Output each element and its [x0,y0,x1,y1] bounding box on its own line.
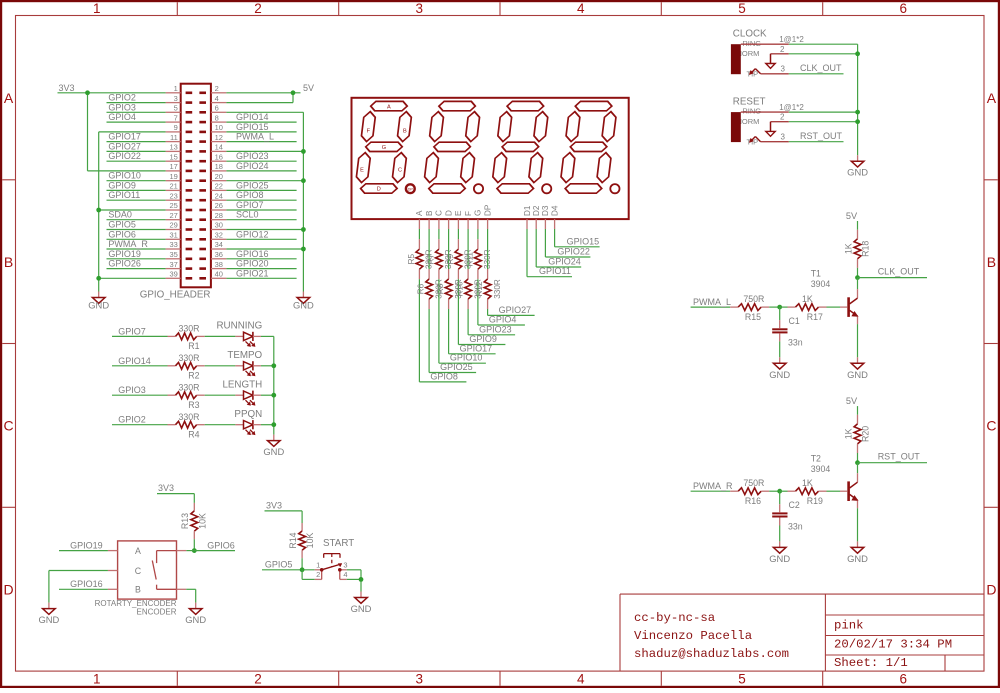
svg-text:18: 18 [215,162,223,171]
svg-text:10: 10 [215,123,223,132]
svg-text:3: 3 [174,94,178,103]
ground GND left [88,292,109,311]
display pins [419,219,554,229]
svg-text:35: 35 [169,250,177,259]
svg-text:GND: GND [847,553,868,564]
resistor R10 330R [456,279,483,299]
node GPIO16 [226,249,296,259]
svg-text:GND: GND [847,369,868,380]
svg-text:C: C [4,418,14,434]
svg-text:R19: R19 [807,496,823,506]
junction clock pin2 [855,51,860,56]
wire cap to GND [779,526,781,542]
svg-text:C: C [135,566,142,576]
svg-text:G: G [382,145,386,151]
svg-text:2: 2 [780,45,785,54]
svg-text:7: 7 [174,113,178,122]
svg-text:34: 34 [215,240,223,249]
node PWMA_R [107,239,166,249]
svg-text:D4: D4 [550,205,559,216]
svg-text:GPIO11: GPIO11 [108,190,140,200]
svg-text:GPIO11: GPIO11 [539,266,571,276]
resistor R20 1K [843,415,870,453]
node GPIO3 [107,102,166,112]
node PWMA_L [691,297,731,307]
svg-text:PPQN: PPQN [234,409,262,420]
svg-text:3: 3 [416,1,424,16]
svg-text:GPIO22: GPIO22 [557,247,590,257]
svg-text:22: 22 [215,182,223,191]
svg-text:1: 1 [93,671,101,686]
junction reset pin1 [855,110,860,115]
svg-text:GPIO15: GPIO15 [567,236,600,246]
svg-text:START: START [323,538,354,549]
svg-text:1: 1 [316,560,320,569]
wire digit D1 [527,229,572,277]
svg-text:GPIO23: GPIO23 [479,324,512,334]
svg-text:16: 16 [215,152,223,161]
svg-text:3V3: 3V3 [158,483,174,493]
resistor R4 330R [168,412,205,440]
svg-text:GPIO27: GPIO27 [108,141,141,151]
junction GND pin30 [301,227,306,232]
wire [205,335,236,337]
svg-text:GPIO14: GPIO14 [118,356,151,366]
svg-text:PWMA_R: PWMA_R [108,239,148,249]
svg-text:19: 19 [169,172,177,181]
LED LENGTH [222,379,262,405]
wire 3V3 to R14 [265,511,303,523]
node GPIO10 [107,171,166,181]
svg-text:B: B [425,210,434,216]
node GPIO2 [107,93,166,103]
node GPIO23 [226,151,296,161]
wire 3V3 to R13 [157,494,194,503]
node GPIO5 [262,559,315,570]
svg-text:17: 17 [169,162,177,171]
svg-text:GND: GND [769,553,790,564]
svg-text:C: C [435,210,444,216]
svg-text:24: 24 [215,191,223,200]
svg-text:RESET: RESET [733,96,766,107]
svg-text:GPIO27: GPIO27 [499,305,532,315]
svg-text:GPIO17: GPIO17 [108,132,141,142]
resistor R6 330R [417,279,444,299]
svg-text:cc-by-nc-sa: cc-by-nc-sa [634,611,715,625]
node GPIO26 [107,259,166,269]
svg-text:D2: D2 [532,205,541,216]
wire 5V to R20 [857,406,859,415]
junction base RC [777,305,782,310]
svg-text:D3: D3 [541,205,550,216]
svg-text:750R: 750R [743,478,764,488]
svg-text:R13: R13 [180,513,190,529]
svg-text:Vincenzo Pacella: Vincenzo Pacella [634,629,752,643]
resistor R9 330R [446,249,473,269]
ground switch [351,592,372,615]
resistor R13 10K [180,503,207,539]
svg-text:6: 6 [900,1,908,16]
ground emitter T2 [847,541,868,564]
resistor R7 330R [426,249,453,269]
svg-text:LENGTH: LENGTH [222,379,262,390]
wire [261,365,274,367]
node GPIO25 [226,180,296,190]
wire [261,424,274,426]
svg-text:B: B [403,129,407,135]
resistor R17 1K [780,294,827,322]
svg-text:330R: 330R [178,353,199,363]
svg-text:330R: 330R [493,279,502,299]
node GPIO21 [226,268,296,278]
wire LED cathode bus [273,336,275,434]
svg-text:R16: R16 [745,496,761,506]
wire [769,306,780,308]
junction 5V [291,90,296,95]
svg-text:1@1*2: 1@1*2 [779,103,804,112]
node GPIO6 [194,540,235,550]
svg-text:R2: R2 [188,370,199,380]
wire segment C [439,229,486,363]
svg-text:D: D [986,581,996,597]
svg-text:R15: R15 [745,312,761,322]
svg-text:13: 13 [169,143,177,152]
node GPIO3 [112,385,168,395]
wire [261,335,274,337]
jack CLOCK [731,28,804,78]
svg-text:GPIO24: GPIO24 [236,161,269,171]
svg-text:1K: 1K [843,243,853,254]
svg-text:D: D [444,210,453,216]
node GPIO20 [226,259,296,269]
svg-text:3V3: 3V3 [59,83,75,93]
junction GND pin39 [96,276,101,281]
svg-text:CLOCK: CLOCK [733,28,767,39]
svg-text:GPIO21: GPIO21 [236,268,269,278]
wire to base [827,490,841,492]
svg-text:GPIO8: GPIO8 [236,190,264,200]
svg-text:3904: 3904 [811,279,831,289]
wire R13 to node [193,539,195,550]
svg-text:GPIO3: GPIO3 [118,385,146,395]
encoder SW1 ROTARTY_ENCODER [95,541,187,617]
svg-text:GPIO3: GPIO3 [108,102,136,112]
wire emitter to GND [857,508,859,541]
svg-text:GPIO6: GPIO6 [207,540,235,550]
svg-text:330R: 330R [178,324,199,334]
svg-text:30: 30 [215,221,223,230]
svg-text:R11: R11 [465,252,474,267]
node GPIO19 [59,540,108,550]
svg-text:R1: R1 [188,341,199,351]
transistor T2 3904 [811,454,858,509]
svg-text:R12: R12 [475,281,484,296]
svg-text:GPIO16: GPIO16 [236,249,269,259]
svg-text:4: 4 [577,1,585,16]
svg-text:GPIO7: GPIO7 [118,326,146,336]
wire segment G [478,229,525,325]
junction GND pin34 [301,247,306,252]
transistor T1 3904 [811,269,858,325]
svg-text:21: 21 [169,182,177,191]
svg-text:8: 8 [215,113,219,122]
wire 5V to R18 [857,221,859,230]
wire [205,365,236,367]
svg-text:CLK_OUT: CLK_OUT [800,63,842,73]
svg-text:4: 4 [577,671,585,686]
svg-text:GND: GND [185,614,206,625]
junction [271,422,276,427]
node CLK_OUT [858,266,928,277]
node GPIO11 [107,190,166,200]
wire segment A [419,229,466,382]
node GPIO4 [107,112,166,122]
svg-text:DP: DP [483,204,492,216]
resistor R1 330R [168,324,205,352]
resistor R8 330R [436,279,463,299]
node GPIO14 [226,112,296,122]
wire to collector node [857,453,859,463]
svg-text:C1: C1 [789,316,800,326]
svg-text:GND: GND [847,167,868,178]
wire segment F [468,229,515,335]
ground C1 [769,357,790,380]
junction GND pin14 [301,149,306,154]
svg-text:3V3: 3V3 [266,501,282,511]
svg-text:31: 31 [169,231,177,240]
svg-text:Sheet: 1/1: Sheet: 1/1 [834,656,908,670]
wire segment DP [488,229,535,315]
svg-text:2: 2 [254,671,262,686]
svg-text:GPIO23: GPIO23 [236,151,269,161]
svg-text:28: 28 [215,211,223,220]
resistor R12 330R [475,279,502,299]
svg-text:12: 12 [215,133,223,142]
svg-text:R6: R6 [417,283,426,294]
node SCL0 [226,210,296,220]
wire segment B [429,229,476,373]
node GPIO7 [112,326,168,336]
svg-text:C2: C2 [789,500,800,510]
svg-text:D: D [4,581,14,597]
svg-text:15: 15 [169,152,177,161]
svg-text:shaduz@shaduzlabs.com: shaduz@shaduzlabs.com [634,647,789,661]
svg-text:T1: T1 [811,269,821,279]
junction [271,363,276,368]
svg-text:GND: GND [88,300,109,311]
node PWMA_R [691,481,733,491]
node SDA0 [107,210,166,220]
svg-text:SDA0: SDA0 [108,210,132,220]
svg-text:GPIO2: GPIO2 [108,93,136,103]
resistor R11 330R [465,249,492,269]
svg-text:4: 4 [215,94,219,103]
node CLK_OUT [789,63,844,74]
node GPIO22 [107,151,166,161]
node GPIO2 [112,415,168,425]
wire GND right [226,112,303,291]
display pin names [415,204,559,216]
svg-text:R4: R4 [188,429,199,439]
connector GPIO_HEADER [166,84,227,288]
svg-text:RING: RING [742,107,761,116]
svg-text:R14: R14 [288,532,298,548]
capacitor C2 33n [772,491,803,532]
resistor R3 330R [168,382,205,410]
svg-text:40: 40 [215,270,223,279]
ground GND right [293,292,314,311]
ground C2 [769,541,790,564]
node GPIO19 [107,249,166,259]
svg-text:33: 33 [169,240,177,249]
svg-text:GPIO16: GPIO16 [70,579,103,589]
wire [261,394,274,396]
svg-text:D: D [377,187,381,193]
svg-text:CLK_OUT: CLK_OUT [878,266,920,276]
node RST_OUT [789,131,844,142]
svg-text:R20: R20 [861,426,871,442]
wire encoder B to GND [186,588,195,590]
wire GND left [99,132,166,292]
wire digit D3 [545,229,590,257]
LED RUNNING [216,321,262,347]
LED PPQN [234,409,262,435]
svg-text:2: 2 [780,113,785,122]
svg-text:RST_OUT: RST_OUT [800,131,843,141]
svg-text:ENCODER: ENCODER [136,608,176,617]
svg-text:25: 25 [169,201,177,210]
svg-text:B: B [987,254,996,270]
svg-text:6: 6 [900,671,908,686]
resistor R5 330R [407,249,434,269]
switch S1 START [315,538,355,579]
wire cap to GND [779,341,781,357]
svg-text:GPIO5: GPIO5 [265,559,293,569]
wire switch to GND [347,570,361,592]
node GPIO15 [226,122,296,132]
node GPIO16 [59,579,108,589]
svg-text:GPIO14: GPIO14 [236,112,269,122]
svg-text:GPIO22: GPIO22 [108,151,141,161]
junction GND pin25 [96,208,101,213]
node GPIO9 [107,180,166,190]
resistor R16 750R [730,478,769,506]
wire [205,424,236,426]
title block [620,594,984,671]
junction switch GND [359,577,364,582]
svg-text:GPIO7: GPIO7 [236,200,264,210]
resistor R14 10K [288,523,315,558]
junction GND pin20 [301,178,306,183]
svg-text:3904: 3904 [811,464,831,474]
svg-text:20/02/17 3:34 PM: 20/02/17 3:34 PM [834,638,952,652]
svg-text:D1: D1 [523,205,532,216]
svg-text:27: 27 [169,211,177,220]
svg-text:GPIO4: GPIO4 [108,112,136,122]
svg-text:RUNNING: RUNNING [216,321,262,332]
svg-text:GPIO5: GPIO5 [108,220,136,230]
wire digit D2 [536,229,581,267]
node GPIO5 [107,220,166,230]
svg-text:1@1*2: 1@1*2 [779,35,804,44]
svg-text:36: 36 [215,250,223,259]
svg-text:11: 11 [170,133,178,142]
svg-text:3: 3 [343,560,347,569]
wire [205,394,236,396]
svg-text:37: 37 [169,260,177,269]
node GPIO17 [107,132,166,142]
wire switch pin2 loop [302,570,315,580]
svg-text:TEMPO: TEMPO [227,350,262,361]
svg-text:5V: 5V [846,396,858,406]
ground emitter T1 [847,357,868,380]
svg-text:PWMA_R: PWMA_R [693,481,733,491]
wire emitter to GND [857,324,859,357]
svg-text:G: G [474,210,483,216]
svg-text:C: C [398,168,402,174]
svg-text:2: 2 [254,1,262,16]
wire 5V [226,93,300,103]
LED TEMPO [227,350,262,376]
pin numbers 1-40 [169,84,222,279]
svg-text:750R: 750R [743,294,764,304]
svg-text:38: 38 [215,260,223,269]
junction RST_OUT [855,460,860,465]
svg-text:F: F [464,211,473,216]
resistor R2 330R [168,353,205,381]
svg-text:A: A [987,90,997,106]
svg-text:330R: 330R [178,412,199,422]
svg-text:33n: 33n [788,338,803,348]
wire 3V3 [58,93,166,171]
svg-text:B: B [4,254,13,270]
junction 3V3 [85,90,90,95]
svg-text:R18: R18 [861,241,871,257]
svg-text:20: 20 [215,172,223,181]
node PWMA_L [226,132,296,142]
jack RESET [731,96,804,146]
svg-text:GPIO19: GPIO19 [70,540,103,550]
svg-text:9: 9 [174,123,178,132]
svg-text:GPIO20: GPIO20 [236,259,269,269]
svg-text:4: 4 [343,570,347,579]
svg-text:GPIO24: GPIO24 [548,257,581,267]
svg-text:10K: 10K [305,533,315,549]
svg-text:B: B [135,585,141,595]
node GPIO7 [226,200,296,210]
wire jack pin1/pin2 to GND bus [789,44,858,155]
resistor R18 1K [843,230,870,268]
svg-text:R10: R10 [456,281,465,296]
node RST_OUT [858,451,928,462]
svg-text:GND: GND [769,369,790,380]
svg-text:R5: R5 [407,254,416,265]
wire to collector node [857,268,859,278]
svg-text:29: 29 [169,221,177,230]
svg-text:GND: GND [351,603,372,614]
svg-text:14: 14 [215,143,223,152]
svg-text:1: 1 [174,84,178,93]
svg-text:39: 39 [169,270,177,279]
svg-text:DP: DP [408,187,414,191]
svg-text:3: 3 [781,65,786,74]
node GPIO6 [107,229,166,239]
svg-text:GPIO15: GPIO15 [236,122,269,132]
resistor R15 750R [730,294,769,322]
svg-text:C: C [986,418,996,434]
junction CLK_OUT [855,275,860,280]
svg-text:GPIO12: GPIO12 [236,229,269,239]
